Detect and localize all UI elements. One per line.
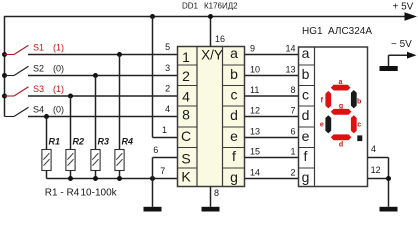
segment d (lit) <box>331 134 352 140</box>
wire R3 bottom lead <box>95 171 97 179</box>
svg-text:S: S <box>181 151 190 167</box>
svg-text:R1 - R4: R1 - R4 <box>45 188 80 199</box>
wire output e <box>245 137 299 139</box>
resistor R2 <box>66 136 84 170</box>
svg-text:АЛС324А: АЛС324А <box>328 26 372 37</box>
svg-text:a: a <box>339 79 343 86</box>
node R3 bottom junction <box>93 176 98 181</box>
svg-text:X/Y: X/Y <box>201 47 223 62</box>
switch S2 <box>5 63 65 75</box>
svg-text:(0): (0) <box>53 63 64 73</box>
svg-text:b: b <box>302 66 310 82</box>
wire S2 row to IC <box>28 75 178 77</box>
svg-text:10-100k: 10-100k <box>81 188 118 199</box>
segment a (lit) <box>331 85 351 91</box>
svg-text:R4: R4 <box>122 136 134 146</box>
wire left bus <box>4 16 6 117</box>
svg-text:4: 4 <box>182 89 190 105</box>
node pin 12 junction <box>386 176 391 181</box>
svg-text:f: f <box>304 148 308 164</box>
wire R4 top lead <box>119 55 121 150</box>
segment b (unlit) <box>351 90 357 108</box>
svg-text:d: d <box>339 141 343 148</box>
svg-text:7: 7 <box>290 105 295 115</box>
wire pin 16 stub <box>210 17 212 47</box>
svg-text:a: a <box>230 45 238 61</box>
wire +5V top rail <box>5 16 408 18</box>
wire R2 bottom lead <box>70 171 72 179</box>
svg-text:8: 8 <box>290 85 295 95</box>
svg-text:14: 14 <box>285 43 295 53</box>
svg-text:d: d <box>230 107 238 123</box>
svg-text:14: 14 <box>250 167 260 177</box>
wire R1 bottom lead <box>46 171 48 179</box>
wire C row <box>153 137 178 139</box>
svg-text:a: a <box>302 45 310 61</box>
svg-text:1: 1 <box>182 49 190 65</box>
svg-text:К176ИД2: К176ИД2 <box>204 2 238 11</box>
wire S4 row to IC <box>28 116 178 118</box>
wire bottom rail / K row <box>47 178 178 180</box>
svg-text:(0): (0) <box>53 104 64 114</box>
svg-text:b: b <box>230 66 238 82</box>
wire output c <box>245 95 299 97</box>
power +5V arrow <box>405 12 418 21</box>
svg-text:4: 4 <box>165 104 170 114</box>
svg-text:c: c <box>231 87 238 103</box>
svg-text:b: b <box>357 99 361 106</box>
svg-text:6: 6 <box>153 145 158 155</box>
svg-text:S2: S2 <box>33 63 44 73</box>
IC DD1 body <box>178 45 245 186</box>
display HG1 body <box>299 45 368 186</box>
svg-text:(1): (1) <box>53 84 64 94</box>
svg-text:2: 2 <box>182 68 190 84</box>
segment c (lit) <box>351 115 357 133</box>
wire ground stub left <box>152 179 154 207</box>
svg-text:2: 2 <box>290 167 295 177</box>
ground bar under DD1 <box>202 207 220 212</box>
svg-text:e: e <box>230 128 238 144</box>
switch S4 <box>5 104 65 116</box>
svg-text:10: 10 <box>250 64 260 74</box>
svg-text:8: 8 <box>214 188 219 198</box>
wire HG1 pin 4 <box>368 157 389 159</box>
segment e (unlit) <box>325 115 331 133</box>
node S3 pole junction <box>2 94 7 99</box>
svg-text:8: 8 <box>182 107 190 123</box>
wire HG1 pin 12 <box>368 178 389 180</box>
wire C pull-up vertical <box>152 17 154 138</box>
resistor R3 <box>91 136 109 170</box>
svg-text:3: 3 <box>165 63 170 73</box>
svg-text:R3: R3 <box>98 136 110 146</box>
svg-text:HG1: HG1 <box>302 26 323 37</box>
wire S1 row to IC <box>28 54 178 56</box>
node R3 top junction <box>93 73 98 78</box>
decimal point (unlit) <box>357 135 362 141</box>
svg-text:d: d <box>302 107 310 123</box>
svg-text:e: e <box>320 122 324 129</box>
wire R4 bottom lead <box>119 171 121 179</box>
wire output d <box>245 116 299 118</box>
svg-text:− 5V: − 5V <box>391 39 412 50</box>
svg-text:g: g <box>339 103 343 110</box>
resistor R1 <box>42 136 60 170</box>
svg-text:+ 5V: + 5V <box>393 2 414 13</box>
wire output g <box>245 178 299 180</box>
wire output f <box>245 157 299 159</box>
svg-text:R1: R1 <box>49 136 61 146</box>
segment f (lit) <box>325 91 331 109</box>
node +5V to C junction <box>150 14 155 19</box>
svg-text:2: 2 <box>165 84 170 94</box>
svg-text:S3: S3 <box>33 84 44 94</box>
segment g (lit) <box>331 109 352 115</box>
wire S3 row to IC <box>28 95 178 97</box>
svg-text:13: 13 <box>250 126 260 136</box>
wire R2 top lead <box>70 96 72 150</box>
svg-text:DD1: DD1 <box>182 2 199 11</box>
svg-text:13: 13 <box>285 64 295 74</box>
-5V terminal bar <box>380 66 398 71</box>
wire output b <box>245 75 299 77</box>
node R4 top junction <box>117 52 122 57</box>
svg-text:12: 12 <box>250 105 260 115</box>
svg-text:6: 6 <box>290 126 295 136</box>
wire S to K vertical <box>152 158 154 179</box>
svg-text:R2: R2 <box>73 136 85 146</box>
svg-text:g: g <box>302 169 310 185</box>
ground bar right <box>380 207 398 212</box>
node S1 pole junction <box>2 52 7 57</box>
svg-text:9: 9 <box>250 43 255 53</box>
svg-text:7: 7 <box>160 166 165 176</box>
power -5V arrow <box>389 52 417 66</box>
node S/K ground junction <box>150 176 155 181</box>
svg-text:g: g <box>230 169 238 185</box>
wire R1 top lead <box>46 117 48 150</box>
node R4 bottom junction <box>117 176 122 181</box>
switch S3 <box>5 84 65 96</box>
svg-text:f: f <box>232 148 236 164</box>
svg-text:16: 16 <box>215 34 225 44</box>
wire common cathode vertical <box>388 158 390 207</box>
wire output a <box>245 54 299 56</box>
svg-text:c: c <box>302 87 309 103</box>
node R2 top junction <box>68 94 73 99</box>
svg-text:(1): (1) <box>53 42 64 52</box>
svg-text:c: c <box>357 122 361 129</box>
node S2 pole junction <box>2 73 7 78</box>
node R2 bottom junction <box>68 176 73 181</box>
svg-text:12: 12 <box>371 165 381 175</box>
svg-text:1: 1 <box>162 125 167 135</box>
resistor R4 <box>115 136 133 170</box>
svg-text:5: 5 <box>165 42 170 52</box>
svg-text:C: C <box>181 128 191 144</box>
ground bar left <box>144 207 162 212</box>
wire pin 8 ground stub <box>210 187 212 207</box>
svg-text:K: K <box>181 169 191 185</box>
svg-text:e: e <box>302 128 310 144</box>
svg-text:1: 1 <box>290 146 295 156</box>
svg-text:S1: S1 <box>33 42 44 52</box>
node R1 top junction <box>44 114 49 119</box>
svg-text:15: 15 <box>250 146 260 156</box>
switch S1 <box>5 42 65 54</box>
node pin16 junction <box>208 14 213 19</box>
svg-text:S4: S4 <box>33 104 44 114</box>
svg-text:4: 4 <box>371 144 376 154</box>
svg-text:11: 11 <box>250 85 259 95</box>
wire R3 top lead <box>95 76 97 150</box>
wire S row <box>153 157 178 159</box>
